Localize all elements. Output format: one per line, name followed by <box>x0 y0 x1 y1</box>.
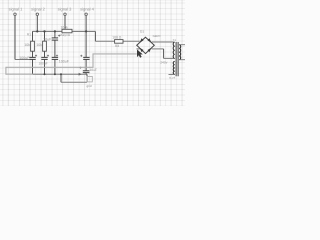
ground symbol box <box>87 76 92 82</box>
svg-text:100uF: 100uF <box>59 60 70 64</box>
pending wire (grey) <box>6 54 137 74</box>
wire to ground symbol <box>61 81 87 83</box>
wire to transformer lower pin <box>164 57 174 59</box>
svg-text:100 Ω: 100 Ω <box>112 36 122 40</box>
capacitor C1 <box>19 55 37 61</box>
wire T3 down <box>64 16 66 29</box>
wire R2 top lead <box>44 31 46 41</box>
svg-text:signal 1: signal 1 <box>9 7 24 12</box>
terminal T4 <box>85 13 87 15</box>
ground lead <box>86 74 88 82</box>
svg-text:ts_p4: ts_p4 <box>169 77 176 80</box>
svg-text:R1: R1 <box>27 32 31 36</box>
svg-text:10uF: 10uF <box>43 38 52 42</box>
node label signal2 <box>31 7 46 12</box>
svg-text:10k: 10k <box>24 43 30 47</box>
wire top rail <box>33 30 96 32</box>
node label signal3 <box>58 7 73 12</box>
svg-text:signal 4: signal 4 <box>80 7 95 12</box>
svg-text:gnd: gnd <box>87 84 92 88</box>
mouse cursor <box>137 50 143 58</box>
wire T4 down <box>85 16 87 57</box>
terminal T1 <box>14 13 16 15</box>
wire C3 to C4 <box>54 40 56 57</box>
right tap upper <box>179 44 185 46</box>
wire C6 to bus <box>85 73 87 75</box>
svg-text:T1: T1 <box>172 38 176 42</box>
right winding <box>179 45 181 60</box>
terminal T3 <box>64 13 66 15</box>
wire ground drop <box>60 74 62 82</box>
wire C4 down to bus <box>54 59 56 74</box>
bus end arrow <box>79 73 82 76</box>
wire T1 down <box>14 16 16 60</box>
wire R2 bottom lead <box>44 51 46 57</box>
resistor R1 <box>24 32 34 51</box>
svg-text:R3: R3 <box>115 44 119 48</box>
resistor R2 <box>36 41 46 51</box>
node label signal4 <box>80 7 95 12</box>
capacitor C5 <box>80 55 89 60</box>
wire C3 top lead <box>54 31 56 37</box>
wire R1 bottom lead <box>32 51 34 57</box>
wire R3 to bridge <box>123 40 140 42</box>
svg-text:100k: 100k <box>61 26 69 30</box>
node label signal1 <box>9 7 24 12</box>
upper-left winding <box>173 42 175 58</box>
ground bus <box>33 73 88 75</box>
resistor R3 <box>112 36 123 48</box>
svg-text:10uF: 10uF <box>90 68 97 72</box>
potentiometer R5 <box>61 26 73 38</box>
wire C5 to C6 <box>85 59 87 70</box>
capacitor C6 <box>79 67 97 73</box>
wire bridge upper-right to transformer <box>152 41 174 43</box>
wire R1 top lead <box>32 31 34 41</box>
svg-text:100uF: 100uF <box>19 56 30 60</box>
core <box>176 42 178 76</box>
wire C1 down to bus <box>32 59 34 74</box>
capacitor C3 <box>43 35 60 42</box>
svg-text:Key=A: Key=A <box>61 33 71 37</box>
wire bridge lower-left stub <box>136 48 139 50</box>
bottom left pin <box>169 74 174 76</box>
wire to R3 <box>95 40 114 42</box>
wire T1 to C1 bottom <box>15 59 29 61</box>
terminal T2 <box>36 13 38 15</box>
bridge rectifier D1 <box>137 29 161 53</box>
wire T2 down <box>36 16 38 32</box>
wire rail corner down <box>94 31 96 41</box>
transformer T1 <box>160 38 185 80</box>
wire C2 down to bus <box>44 59 46 74</box>
svg-text:GBPC: GBPC <box>153 34 161 38</box>
right tap lower <box>179 59 185 61</box>
svg-text:signal 2: signal 2 <box>31 7 46 12</box>
svg-text:D1: D1 <box>140 29 144 33</box>
lower-left winding <box>173 61 175 74</box>
svg-text:10k: 10k <box>36 43 42 47</box>
junction dots <box>36 30 87 75</box>
svg-text:240v: 240v <box>160 60 168 64</box>
wire bridge lower-right <box>152 48 164 50</box>
capacitor C2 <box>39 55 50 66</box>
svg-text:signal 3: signal 3 <box>58 7 73 12</box>
capacitor C4 <box>52 55 70 64</box>
wire down jog <box>163 49 165 59</box>
svg-text:100uF: 100uF <box>39 62 48 66</box>
